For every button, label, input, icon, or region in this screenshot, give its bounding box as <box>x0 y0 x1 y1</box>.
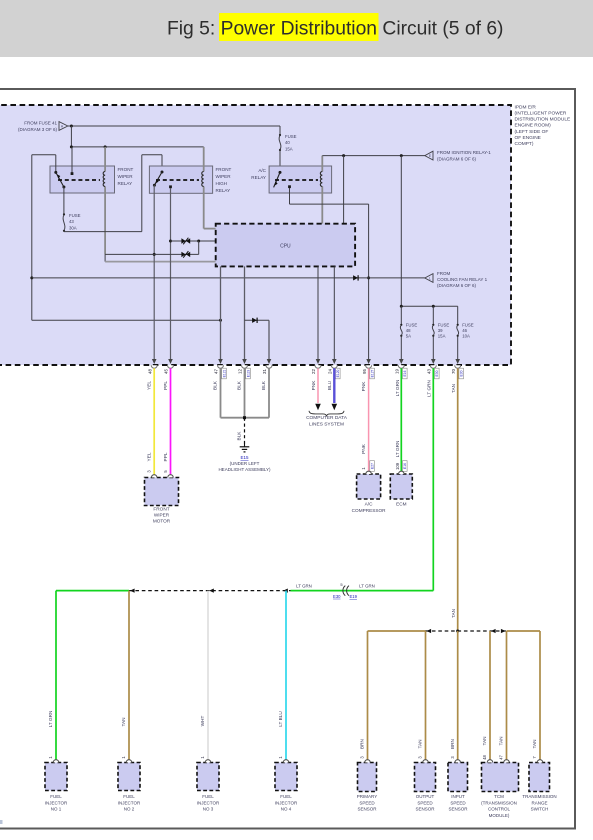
svg-text:WIPER: WIPER <box>118 174 134 179</box>
svg-text:SPEED: SPEED <box>359 800 375 805</box>
svg-text:BLK: BLK <box>213 380 218 390</box>
svg-text:LT GRN: LT GRN <box>395 380 400 397</box>
FUEL INJECTOR NO 1 <box>45 760 68 812</box>
svg-text:FROM IGNITION RELAY-1: FROM IGNITION RELAY-1 <box>437 150 491 155</box>
svg-text:LINES SYSTEM: LINES SYSTEM <box>309 421 344 427</box>
svg-text:FROM: FROM <box>437 271 450 276</box>
svg-text:FUSE: FUSE <box>406 322 418 327</box>
svg-text:40: 40 <box>285 140 290 145</box>
diode D1 line to CPU <box>171 238 216 245</box>
svg-text:FRONT: FRONT <box>216 167 232 172</box>
svg-text:NO 2: NO 2 <box>124 807 135 812</box>
wire fuse46 to pin 70 <box>455 337 460 365</box>
svg-text:TAN: TAN <box>121 717 126 726</box>
svg-text:109: 109 <box>395 462 400 470</box>
svg-text:TAN: TAN <box>482 736 487 745</box>
wire relay3 contact to pin 95 <box>290 188 371 364</box>
svg-text:FRONT: FRONT <box>153 507 169 512</box>
svg-text:31: 31 <box>262 369 267 375</box>
wire BLK pin12 <box>237 368 245 417</box>
svg-text:46: 46 <box>462 328 467 333</box>
wire relay1 coil to CPU <box>105 254 216 261</box>
diode D2 line to CPU <box>105 241 199 258</box>
svg-text:FUSE: FUSE <box>462 322 474 327</box>
svg-text:BLK: BLK <box>237 431 242 441</box>
svg-text:COMPUTER DATA: COMPUTER DATA <box>306 415 348 421</box>
svg-text:MODULE): MODULE) <box>489 813 510 818</box>
wire LT BLU to fuel injector 4 <box>278 591 286 763</box>
svg-text:BRN: BRN <box>360 739 365 749</box>
svg-text:Fig 5: Power Distribution Circ: Fig 5: Power Distribution Circuit (5 of … <box>167 19 503 40</box>
wire BLK bus bar <box>221 416 270 419</box>
svg-text:E30: E30 <box>460 370 464 376</box>
wire TAN TCM wire pin 48 <box>482 631 490 763</box>
svg-text:E15: E15 <box>240 455 249 460</box>
IPDM E/R module box <box>0 105 511 365</box>
svg-text:15A: 15A <box>285 146 293 151</box>
CPU box U1 <box>216 224 355 267</box>
injector bus LT GRN left segment <box>56 590 129 592</box>
fuse F39 15A <box>432 322 449 338</box>
svg-text:PNK: PNK <box>361 381 366 392</box>
ECM <box>390 471 412 506</box>
A/C COMPRESSOR <box>352 471 386 513</box>
wire WHT to fuel injector 3 <box>200 591 208 763</box>
svg-text:12: 12 <box>238 369 243 375</box>
connector pin 95 at IPDM <box>362 365 375 379</box>
svg-text:19: 19 <box>395 369 400 375</box>
injector bus LT GRN right segment <box>291 583 434 590</box>
wire TAN output speed sensor wire <box>418 631 426 763</box>
wire TAN pin70 down to sensor bus <box>451 368 459 632</box>
wire PNK pin95 to A/C compressor <box>361 368 375 474</box>
wire TAN transmission range switch wire <box>532 631 540 763</box>
svg-text:E121: E121 <box>222 369 226 377</box>
connector arrow FROM FUSE 41 <box>18 121 68 132</box>
svg-text:LT GRN: LT GRN <box>395 441 400 458</box>
wire fuse39 to pin 43 <box>431 337 436 365</box>
wire CPU to pin 24 <box>332 266 337 364</box>
fuse F43 30A <box>63 213 81 232</box>
wire to fuse 40 <box>279 126 281 134</box>
svg-text:NO 4: NO 4 <box>281 807 292 812</box>
svg-text:DISTRIBUTION MODULE: DISTRIBUTION MODULE <box>515 117 571 123</box>
svg-text:95: 95 <box>362 369 367 375</box>
svg-text:(DIAGRAM 6 OF 6): (DIAGRAM 6 OF 6) <box>437 157 477 162</box>
svg-text:39: 39 <box>438 328 443 333</box>
relay K1 internals <box>54 147 105 255</box>
svg-text:30A: 30A <box>69 225 77 230</box>
svg-text:(DIAGRAM 3 OF 6): (DIAGRAM 3 OF 6) <box>18 127 58 132</box>
svg-text:SENSOR: SENSOR <box>415 807 435 812</box>
svg-text:(DIAGRAM 6 OF 6): (DIAGRAM 6 OF 6) <box>437 283 477 288</box>
svg-text:5A: 5A <box>406 334 411 339</box>
svg-text:COMPRESSOR: COMPRESSOR <box>352 508 386 513</box>
fuse F48 5A <box>400 322 417 338</box>
connector pin 22 at IPDM <box>311 365 321 374</box>
connector arrow FROM COOLING FAN RELAY 1 <box>425 271 488 288</box>
connector pin 47 at IPDM <box>214 365 227 379</box>
svg-text:INJECTOR: INJECTOR <box>118 800 141 805</box>
FUEL INJECTOR NO 2 <box>118 760 141 812</box>
svg-text:E30: E30 <box>435 370 439 376</box>
svg-text:MOTOR: MOTOR <box>153 519 171 524</box>
svg-text:48: 48 <box>482 755 487 760</box>
svg-text:RELAY: RELAY <box>251 175 266 180</box>
svg-text:(UNDER LEFT: (UNDER LEFT <box>230 461 260 466</box>
wire TAN TCM wire pin 47 <box>499 631 507 763</box>
OUTPUT SPEED SENSOR <box>415 760 436 812</box>
svg-text:E127: E127 <box>371 369 375 377</box>
svg-text:YEL: YEL <box>147 452 152 461</box>
svg-text:E27: E27 <box>371 463 375 469</box>
svg-text:TAN: TAN <box>451 384 456 393</box>
svg-text:HIGH: HIGH <box>216 181 227 186</box>
wire PPL pin45 to wiper motor <box>163 368 171 477</box>
svg-text:FUSE: FUSE <box>69 213 81 218</box>
svg-text:FUEL: FUEL <box>280 794 292 799</box>
relay K1 label <box>118 167 134 186</box>
svg-text:LT GRN: LT GRN <box>427 380 432 397</box>
svg-text:CONTROL: CONTROL <box>488 807 510 812</box>
svg-text:NO 3: NO 3 <box>203 807 214 812</box>
svg-text:45: 45 <box>164 369 169 375</box>
svg-text:TAN: TAN <box>418 739 423 748</box>
wire relay2 contact output (pin 45) <box>168 188 173 364</box>
svg-text:FUEL: FUEL <box>202 794 214 799</box>
svg-text:L: L <box>429 277 431 281</box>
FRONT WIPER MOTOR M1 <box>145 475 179 524</box>
ground E15 <box>218 444 271 472</box>
COMPUTER DATA LINES SYSTEM <box>306 411 348 428</box>
svg-text:FRONT: FRONT <box>118 167 134 172</box>
svg-text:(INTELLIGENT POWER: (INTELLIGENT POWER <box>515 111 567 117</box>
svg-text:INJECTOR: INJECTOR <box>197 800 220 805</box>
diode D3 <box>353 275 358 280</box>
svg-text:47: 47 <box>214 369 219 375</box>
wire TAN primary speed sensor wire <box>360 631 368 763</box>
wire relay2 arm output (pin 48) <box>152 185 157 364</box>
TRANSMISSION RANGE SWITCH <box>522 760 556 812</box>
svg-text:E19: E19 <box>350 594 358 599</box>
svg-text:(TRANSMISSION: (TRANSMISSION <box>481 800 517 805</box>
IPDM E/R label <box>515 104 571 147</box>
svg-text:E120: E120 <box>336 369 340 377</box>
svg-text:WHT: WHT <box>200 716 205 727</box>
connector pin 70 at IPDM <box>451 365 464 379</box>
svg-text:COMPT): COMPT) <box>515 141 534 147</box>
svg-text:TRANSMISSION: TRANSMISSION <box>522 794 556 799</box>
svg-text:SWITCH: SWITCH <box>531 807 549 812</box>
INPUT SPEED SENSOR <box>448 760 468 812</box>
svg-text:SPEED: SPEED <box>450 800 466 805</box>
svg-text:INPUT: INPUT <box>451 794 465 799</box>
svg-text:FROM FUSE 41: FROM FUSE 41 <box>24 121 57 126</box>
svg-text:FUEL: FUEL <box>123 794 135 799</box>
wire fuse43 to relay2 switch <box>64 155 162 232</box>
connector pin 24 at IPDM <box>328 365 341 379</box>
svg-text:WIPER: WIPER <box>154 513 170 518</box>
svg-text:INJECTOR: INJECTOR <box>45 800 68 805</box>
svg-text:(LEFT SIDE OF: (LEFT SIDE OF <box>515 129 549 135</box>
connector pin 31 at IPDM <box>262 365 272 374</box>
wire BLK to ground <box>237 418 245 444</box>
wire TAN input speed sensor wire <box>450 631 458 763</box>
wire LT GRN pin19 to ECM <box>395 368 407 474</box>
svg-text:A/C: A/C <box>365 502 373 507</box>
connector pin 45 at IPDM <box>164 365 174 374</box>
svg-text:43: 43 <box>69 219 74 224</box>
PRIMARY SPEED SENSOR <box>357 760 377 812</box>
svg-text:70: 70 <box>451 369 456 375</box>
svg-text:LT GRN: LT GRN <box>48 711 53 728</box>
wire fuse48 to pin 19 <box>399 337 404 365</box>
svg-text:OUTPUT: OUTPUT <box>416 794 435 799</box>
svg-text:FUSE: FUSE <box>438 322 450 327</box>
wire LT GRN to fuel injector 1 <box>48 591 56 763</box>
svg-text:PPL: PPL <box>163 381 168 390</box>
svg-text:PNK: PNK <box>311 380 316 391</box>
connector pin 43 at IPDM <box>427 365 440 379</box>
svg-text:NO 1: NO 1 <box>51 807 62 812</box>
svg-text:PRIMARY: PRIMARY <box>357 794 377 799</box>
sensor bus TAN left segment <box>368 630 426 632</box>
relay K2 FRONT WIPER HIGH RELAY box <box>149 166 212 193</box>
injector bus dashed segment <box>129 589 291 593</box>
svg-text:PPL: PPL <box>163 452 168 461</box>
svg-text:BLK: BLK <box>261 380 266 390</box>
connector pin 19 at IPDM <box>395 365 408 379</box>
sensor bus TAN right segment <box>507 630 541 632</box>
svg-text:RELAY: RELAY <box>118 181 133 186</box>
svg-text:SPEED: SPEED <box>417 800 433 805</box>
page corner mark <box>0 820 3 824</box>
svg-text:E119: E119 <box>246 370 250 378</box>
svg-text:E16: E16 <box>403 463 407 469</box>
svg-text:ECM: ECM <box>396 502 407 507</box>
wire TAN to fuel injector 2 <box>121 591 129 763</box>
connector arrow FROM IGNITION RELAY-1 <box>425 150 491 161</box>
svg-text:15A: 15A <box>438 334 446 339</box>
wire CPU to pin 22 <box>316 266 321 364</box>
svg-text:43: 43 <box>427 369 432 375</box>
svg-text:E30: E30 <box>333 594 341 599</box>
wire left rail <box>30 155 222 322</box>
svg-text:48: 48 <box>406 328 411 333</box>
svg-text:LT GRN: LT GRN <box>359 583 375 588</box>
wire fuse40 to A/C relay <box>279 151 281 173</box>
svg-text:LT GRN: LT GRN <box>296 583 312 588</box>
svg-text:SENSOR: SENSOR <box>357 807 377 812</box>
relay K1 FRONT WIPER RELAY box <box>50 166 115 193</box>
svg-text:WIPER: WIPER <box>216 174 232 179</box>
svg-text:10A: 10A <box>462 334 470 339</box>
wire CPU to pin 47 <box>218 266 223 364</box>
fuse F46 10A <box>457 322 474 338</box>
svg-text:TAN: TAN <box>451 609 456 618</box>
title bar <box>0 0 593 57</box>
TCM TRANSMISSION CONTROL MODULE <box>481 760 518 818</box>
FUEL INJECTOR NO 3 <box>197 760 220 812</box>
svg-text:RELAY: RELAY <box>216 188 231 193</box>
wire cooling fan feed <box>32 277 425 279</box>
wire CPU to pin 12 <box>242 266 247 364</box>
svg-text:TAN: TAN <box>532 739 537 748</box>
svg-text:LT BLU: LT BLU <box>278 711 283 727</box>
svg-text:SENSOR: SENSOR <box>448 807 468 812</box>
svg-text:48: 48 <box>147 369 152 375</box>
sensor bus dashed segment <box>426 629 507 633</box>
svg-text:OF ENGINE: OF ENGINE <box>515 135 541 141</box>
svg-text:TAN: TAN <box>499 736 504 745</box>
svg-text:TCM: TCM <box>494 794 504 799</box>
relay K2 internals <box>153 147 216 229</box>
FUEL INJECTOR NO 4 <box>275 760 298 812</box>
svg-text:COOLING FAN RELAY 1: COOLING FAN RELAY 1 <box>437 277 488 282</box>
svg-text:CPU: CPU <box>280 244 291 250</box>
inline connector 5 E30 E19 <box>333 582 358 599</box>
connector pin 48 at IPDM <box>147 365 157 374</box>
fuse F40 15A <box>279 134 297 152</box>
diode D4 branch to pin 31 <box>245 318 272 364</box>
wire YEL pin48 to wiper motor <box>147 368 155 477</box>
wire BLU pin24 to data lines <box>327 368 337 410</box>
relay K3 label <box>251 168 266 180</box>
wire BLK pin31 <box>261 368 269 417</box>
svg-text:PNK: PNK <box>361 443 366 454</box>
wire ignition feed <box>322 154 425 306</box>
svg-text:IPDM E/R: IPDM E/R <box>515 104 537 110</box>
connector pin 12 at IPDM <box>238 365 251 379</box>
relay K3 internals <box>274 156 323 224</box>
wire relay1 arm to fuse 43 <box>63 187 65 214</box>
svg-text:FUSE: FUSE <box>285 134 297 139</box>
svg-text:BRN: BRN <box>450 739 455 749</box>
wire LT GRN pin43 down to injector bus <box>427 368 434 590</box>
svg-text:YEL: YEL <box>147 381 152 390</box>
svg-text:47: 47 <box>499 755 504 760</box>
svg-text:BLU: BLU <box>327 380 332 390</box>
svg-text:A/C: A/C <box>258 168 266 173</box>
relay K3 A/C RELAY box <box>269 166 332 193</box>
wire fuse41 feed <box>68 125 280 149</box>
svg-text:RANGE: RANGE <box>531 800 547 805</box>
wire BLK pin47 <box>213 368 221 417</box>
wire PNK pin22 to data lines <box>311 368 321 410</box>
svg-text:BLK: BLK <box>237 380 242 390</box>
svg-text:22: 22 <box>311 369 316 375</box>
svg-text:24: 24 <box>328 369 333 375</box>
relay K2 label <box>216 167 232 193</box>
svg-text:FUEL: FUEL <box>50 794 62 799</box>
svg-text:E16: E16 <box>403 370 407 376</box>
svg-text:ENGINE ROOM): ENGINE ROOM) <box>515 123 552 129</box>
svg-text:HEADLIGHT ASSEMBLY): HEADLIGHT ASSEMBLY) <box>218 467 271 472</box>
wire fuse row feed <box>400 305 458 324</box>
svg-text:INJECTOR: INJECTOR <box>275 800 298 805</box>
